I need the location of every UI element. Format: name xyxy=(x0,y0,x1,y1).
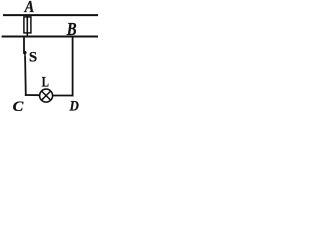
lamp L cross stroke 1 xyxy=(42,91,51,100)
lamp L cross stroke 2 xyxy=(42,91,51,100)
svg-text:L: L xyxy=(42,73,49,90)
svg-text:S: S xyxy=(29,49,37,65)
fuse (box between supply lines) xyxy=(24,17,31,33)
wire: conductor through fuse linking the two rails xyxy=(26,15,28,36)
lamp L circle xyxy=(40,89,53,102)
wire: left branch from second rail down to switch xyxy=(23,37,25,52)
wire: bottom wire from lamp to corner D xyxy=(53,95,74,97)
wire: bottom wire from corner C to lamp xyxy=(25,94,40,96)
svg-text:C: C xyxy=(13,99,24,111)
svg-text:B: B xyxy=(66,19,77,39)
wire: top supply line (rail through fuse, point A side) xyxy=(3,14,98,16)
wire: left branch from switch down to corner C xyxy=(24,57,27,96)
svg-text:D: D xyxy=(69,98,79,111)
wire: second supply line (rail with point B) xyxy=(2,36,98,38)
svg-text:A: A xyxy=(24,0,34,16)
switch S contact dot xyxy=(23,51,27,55)
switch S blade xyxy=(24,54,26,58)
wire: right branch from second rail down to corner D xyxy=(72,37,74,97)
